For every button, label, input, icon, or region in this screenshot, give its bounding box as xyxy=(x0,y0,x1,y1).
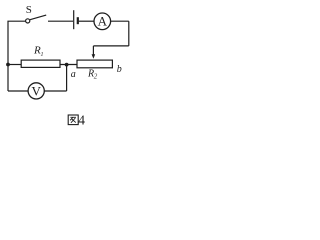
node junction left xyxy=(6,63,10,67)
node a junction xyxy=(65,63,69,67)
wire ammeter to top-right corner xyxy=(111,20,129,22)
slider stem xyxy=(92,46,94,55)
svg-text:a: a xyxy=(71,69,76,80)
svg-text:R2: R2 xyxy=(87,68,98,80)
wire R1 to rheostat xyxy=(60,64,77,66)
switch blade xyxy=(30,15,46,20)
wire switch to battery xyxy=(48,20,73,22)
wire battery to ammeter xyxy=(79,20,94,22)
resistor R1 xyxy=(21,60,60,67)
svg-text:R1: R1 xyxy=(33,45,44,58)
slider arrowhead xyxy=(92,54,96,58)
wire right rail down xyxy=(128,21,130,46)
svg-text:V: V xyxy=(32,84,42,99)
wire node to R1 xyxy=(8,64,21,66)
svg-text:b: b xyxy=(117,64,122,75)
wire slider feed xyxy=(93,45,128,47)
ammeter A circle xyxy=(94,13,111,30)
wire voltmeter to node a branch xyxy=(44,90,66,92)
wire left rail + top-left segment xyxy=(8,21,26,91)
switch S xyxy=(26,19,30,23)
wire node a branch down xyxy=(66,65,68,91)
rheostat R2 body xyxy=(77,60,112,68)
voltmeter V circle xyxy=(28,83,44,99)
svg-text:4: 4 xyxy=(78,113,85,128)
wire bottom-left of voltmeter loop xyxy=(8,90,28,92)
battery long plate xyxy=(73,10,75,29)
svg-text:A: A xyxy=(98,14,108,29)
battery short plate xyxy=(77,17,79,24)
svg-text:S: S xyxy=(26,4,32,16)
caption 图4 xyxy=(68,113,85,128)
